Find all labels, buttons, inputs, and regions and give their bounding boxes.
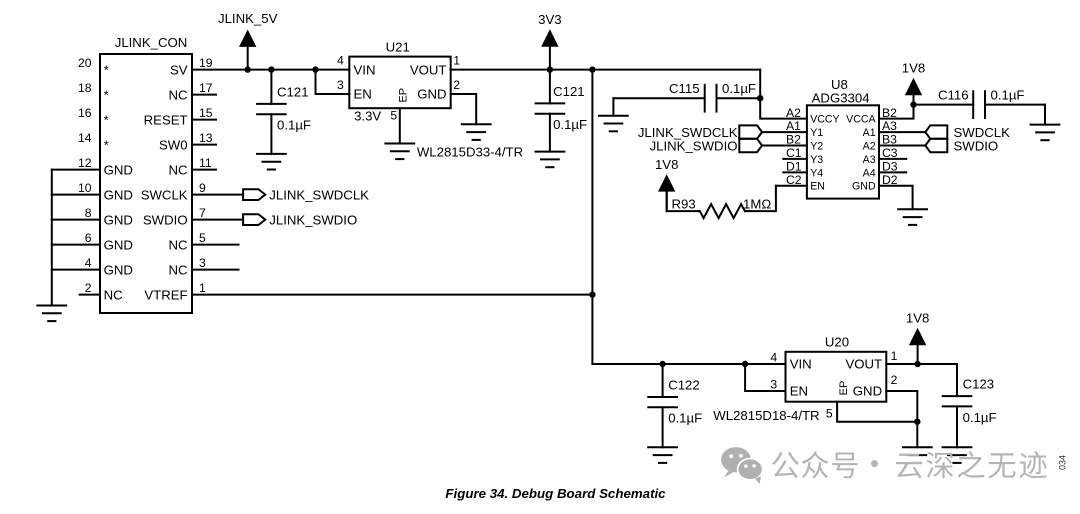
svg-text:RESET: RESET bbox=[144, 112, 188, 127]
wire rail C122 to U20 VIN bbox=[663, 363, 786, 365]
svg-text:A3: A3 bbox=[863, 154, 876, 166]
wire C115 to ground bbox=[612, 98, 614, 116]
svg-text:*: * bbox=[104, 112, 109, 127]
capacitor C121 (0.1uF at JLINK_5V) bbox=[257, 70, 311, 154]
svg-text:0.1µF: 0.1µF bbox=[668, 411, 702, 426]
wire U20 EP pin5 bbox=[837, 402, 917, 422]
power flag 3V3 bbox=[538, 12, 561, 70]
svg-text:7: 7 bbox=[199, 206, 206, 220]
net flag JLINK_SWDIO (pin 7) bbox=[243, 213, 357, 228]
wire pin 11 stub bbox=[192, 169, 216, 171]
ground C121a bbox=[257, 154, 286, 170]
svg-text:GND: GND bbox=[104, 212, 133, 227]
svg-text:1: 1 bbox=[199, 281, 206, 295]
svg-text:GND: GND bbox=[104, 162, 133, 177]
svg-text:C123: C123 bbox=[963, 377, 995, 392]
wire U8 A4 stub bbox=[879, 171, 906, 173]
svg-text:JLINK_SWDIO: JLINK_SWDIO bbox=[269, 213, 357, 228]
svg-text:GND: GND bbox=[104, 187, 133, 202]
wire pin 4 GND stub bbox=[52, 269, 100, 271]
svg-text:Figure 34. Debug Board Schemat: Figure 34. Debug Board Schematic bbox=[445, 486, 666, 501]
junction 3V3 stem bbox=[547, 66, 553, 72]
regulator U20 WL2815D18-4/TR body bbox=[713, 335, 897, 424]
svg-text:1V8: 1V8 bbox=[655, 157, 678, 172]
wire GND bus vertical bbox=[51, 170, 53, 306]
wire U8 A1 to flag bbox=[879, 131, 925, 133]
wire pin 8 GND stub bbox=[52, 219, 100, 221]
svg-text:VTREF: VTREF bbox=[144, 287, 187, 302]
svg-text:8: 8 bbox=[85, 206, 92, 220]
junction U20 VOUT 1V8 bbox=[914, 361, 920, 367]
junction C115 node bbox=[757, 95, 763, 101]
watermark WeChat icon bbox=[721, 447, 763, 484]
connector JLINK_CON pin numbers bbox=[78, 56, 213, 295]
svg-text:3.3V: 3.3V bbox=[354, 109, 381, 124]
ground C122 bbox=[648, 447, 677, 463]
wire U8 Y1 from flag bbox=[762, 131, 807, 133]
wire U8 GND bbox=[879, 186, 913, 210]
wire pin 10 GND stub bbox=[52, 194, 100, 196]
U8 pin net labels bbox=[786, 106, 898, 187]
svg-text:NC: NC bbox=[169, 237, 189, 252]
ground C115 bbox=[599, 116, 628, 132]
svg-text:6: 6 bbox=[85, 231, 92, 245]
svg-text:4: 4 bbox=[337, 54, 344, 68]
svg-text:SV: SV bbox=[170, 62, 188, 77]
wire U20 GND to ground bbox=[916, 422, 918, 448]
wire pin 12 GND stub bbox=[52, 169, 100, 171]
svg-text:WL2815D18-4/TR: WL2815D18-4/TR bbox=[713, 408, 819, 423]
svg-text:VIN: VIN bbox=[354, 62, 376, 77]
svg-text:19: 19 bbox=[199, 56, 213, 70]
net flag JLINK_SWDIO (U8 Y2) bbox=[739, 139, 762, 152]
svg-text:ADG3304: ADG3304 bbox=[812, 90, 870, 105]
connector J1 JLINK_CON body bbox=[100, 35, 192, 313]
svg-text:SW0: SW0 bbox=[159, 137, 188, 152]
net flag SWDCLK bbox=[925, 125, 947, 138]
wire U8 A3 stub bbox=[879, 158, 906, 160]
svg-text:U20: U20 bbox=[825, 335, 849, 350]
svg-text:GND: GND bbox=[852, 181, 876, 193]
junction C122 tap bbox=[659, 361, 665, 367]
wire pin 5 stub bbox=[192, 244, 239, 246]
net flag SWDIO bbox=[925, 139, 947, 152]
junction U20 GND EP bbox=[914, 419, 920, 425]
svg-text:C121: C121 bbox=[553, 84, 585, 99]
svg-text:NC: NC bbox=[104, 287, 124, 302]
net flag JLINK_SWDCLK (U8 Y1) bbox=[739, 125, 762, 138]
svg-text:A4: A4 bbox=[863, 167, 876, 179]
power flag 1V8 at U20 bbox=[906, 311, 929, 364]
wire U20 VOUT to 1V8 rail bbox=[886, 363, 957, 365]
svg-text:3V3: 3V3 bbox=[538, 12, 561, 27]
wire VTREF down to U20 rail bbox=[592, 295, 662, 364]
svg-text:A1: A1 bbox=[863, 127, 876, 139]
wire R93 left lead bbox=[667, 192, 699, 212]
junction 1V8 C116 node bbox=[910, 101, 916, 107]
capacitor C115 0.1uF bbox=[613, 81, 760, 111]
junction VTREF bbox=[589, 291, 595, 297]
ground U21 GND bbox=[462, 124, 491, 140]
wire pin 13 stub bbox=[192, 144, 216, 146]
wire 3V3 rail U21 VOUT to corner bbox=[451, 69, 761, 71]
svg-text:14: 14 bbox=[78, 131, 92, 145]
wire pin 3 stub bbox=[192, 269, 239, 271]
ground C116 bbox=[1031, 125, 1060, 141]
wire R93 right lead bbox=[746, 186, 776, 211]
svg-text:EP: EP bbox=[398, 88, 410, 103]
svg-text:Y2: Y2 bbox=[810, 140, 823, 152]
svg-text:1V8: 1V8 bbox=[902, 61, 925, 76]
capacitor C121 (0.1uF at 3V3) bbox=[536, 70, 588, 152]
svg-text:20: 20 bbox=[78, 56, 92, 70]
wire pin 6 GND stub bbox=[52, 244, 100, 246]
ground connector GND bus bbox=[37, 306, 66, 322]
wire JLINK_5V rail pin19 to U21 VIN bbox=[192, 69, 349, 71]
ground C123 bbox=[943, 447, 972, 463]
ground U8 bbox=[898, 209, 927, 225]
svg-text:3: 3 bbox=[337, 78, 344, 92]
level translator U8 ADG3304 body bbox=[807, 77, 879, 198]
svg-text:2: 2 bbox=[85, 281, 92, 295]
wire pin 2 NC stub bbox=[80, 294, 100, 296]
svg-text:VIN: VIN bbox=[790, 357, 812, 372]
connector JLINK_CON pin name labels bbox=[104, 62, 188, 302]
svg-text:NC: NC bbox=[169, 262, 189, 277]
svg-text:Y1: Y1 bbox=[810, 127, 823, 139]
net flag JLINK_SWDCLK (pin 9) bbox=[243, 188, 369, 203]
svg-text:C121: C121 bbox=[277, 84, 309, 99]
power flag 1V8 at U8 bbox=[902, 61, 925, 105]
power flag JLINK_5V bbox=[218, 11, 278, 70]
svg-text:R93: R93 bbox=[672, 197, 696, 212]
wire U8 Y2 from flag bbox=[762, 145, 807, 147]
svg-text:9: 9 bbox=[199, 181, 206, 195]
ground U20 bbox=[903, 447, 932, 463]
wire U8 VCCA to 1V8 bbox=[879, 105, 914, 119]
ground C121b bbox=[536, 152, 565, 168]
svg-text:VCCY: VCCY bbox=[810, 114, 839, 126]
svg-text:*: * bbox=[104, 87, 109, 102]
svg-text:11: 11 bbox=[199, 156, 212, 170]
svg-text:Y4: Y4 bbox=[810, 167, 823, 179]
svg-text:GND: GND bbox=[104, 237, 133, 252]
wire U8 EN from R93 bbox=[776, 185, 807, 187]
svg-text:JLINK_SWDCLK: JLINK_SWDCLK bbox=[269, 188, 369, 203]
junction C121a tap bbox=[268, 66, 274, 72]
svg-text:1MΩ: 1MΩ bbox=[743, 197, 771, 212]
svg-text:NC: NC bbox=[169, 162, 189, 177]
svg-text:VOUT: VOUT bbox=[410, 62, 447, 77]
svg-text:GND: GND bbox=[104, 262, 133, 277]
wire U20 GND pin2 bbox=[886, 391, 917, 422]
svg-text:1V8: 1V8 bbox=[906, 311, 929, 326]
svg-text:NC: NC bbox=[169, 87, 189, 102]
svg-text:SWCLK: SWCLK bbox=[141, 187, 188, 202]
wire U8 Y4 stub bbox=[783, 171, 807, 173]
svg-text:0.1µF: 0.1µF bbox=[277, 118, 311, 133]
svg-text:U21: U21 bbox=[386, 40, 410, 55]
wire 3V3 vertical to VTREF bbox=[591, 70, 593, 295]
svg-text:15: 15 bbox=[199, 106, 213, 120]
svg-text:SWDIO: SWDIO bbox=[143, 212, 188, 227]
junction JLINK_5V stem bbox=[245, 66, 251, 72]
regulator U21 WL2815D33-4/TR body bbox=[337, 40, 523, 160]
power flag 1V8 at R93 bbox=[655, 157, 678, 211]
junction 3V3 vertical rail bbox=[589, 66, 595, 72]
svg-text:0.1µF: 0.1µF bbox=[963, 410, 997, 425]
svg-text:3: 3 bbox=[770, 378, 777, 392]
wire pin 17 stub bbox=[192, 94, 216, 96]
svg-text:JLINK_5V: JLINK_5V bbox=[218, 11, 278, 26]
wire U20 EN branch bbox=[745, 364, 785, 391]
svg-text:C115: C115 bbox=[669, 81, 700, 96]
svg-text:EN: EN bbox=[810, 181, 825, 193]
svg-text:JLINK_CON: JLINK_CON bbox=[115, 35, 188, 50]
watermark text 公众号·云深之无迹 bbox=[772, 451, 1047, 478]
svg-text:0.1µF: 0.1µF bbox=[722, 81, 756, 96]
wire pin 15 stub bbox=[192, 119, 216, 121]
svg-text:12: 12 bbox=[78, 156, 92, 170]
svg-text:16: 16 bbox=[78, 106, 92, 120]
capacitor C123 0.1uF bbox=[943, 364, 997, 447]
svg-text:13: 13 bbox=[199, 131, 213, 145]
svg-text:*: * bbox=[104, 137, 109, 152]
wire VTREF pin1 bbox=[192, 294, 592, 296]
wire C116 to ground bbox=[1044, 105, 1046, 125]
svg-text:17: 17 bbox=[199, 81, 213, 95]
resistor R93 1Mohm bbox=[672, 197, 772, 219]
ground U21 EP bbox=[385, 144, 414, 160]
svg-text:1: 1 bbox=[453, 54, 460, 68]
svg-text:Y3: Y3 bbox=[810, 154, 823, 166]
svg-text:GND: GND bbox=[417, 87, 446, 102]
wire U21 GND pin2 bbox=[451, 94, 477, 124]
wire pin 9 SWCLK to flag bbox=[192, 194, 243, 196]
wire U21 EN branch bbox=[316, 70, 350, 94]
wire U8 Y3 stub bbox=[783, 158, 807, 160]
svg-text:EN: EN bbox=[790, 384, 808, 399]
svg-text:A2: A2 bbox=[786, 106, 801, 120]
svg-text:WL2815D33-4/TR: WL2815D33-4/TR bbox=[417, 145, 523, 160]
svg-text:5: 5 bbox=[826, 406, 833, 420]
svg-text:*: * bbox=[104, 62, 109, 77]
junction U20 EN tap bbox=[742, 361, 748, 367]
svg-text:C116: C116 bbox=[938, 88, 969, 103]
svg-text:3: 3 bbox=[199, 256, 206, 270]
capacitor C116 0.1uF bbox=[914, 88, 1046, 118]
svg-text:A2: A2 bbox=[863, 140, 876, 152]
wire pin 7 SWDIO to flag bbox=[192, 219, 243, 221]
svg-text:A1: A1 bbox=[786, 119, 801, 133]
svg-text:5: 5 bbox=[390, 108, 397, 122]
svg-text:EP: EP bbox=[838, 381, 850, 396]
svg-text:A3: A3 bbox=[882, 119, 897, 133]
svg-text:EN: EN bbox=[354, 87, 372, 102]
svg-text:2: 2 bbox=[891, 373, 898, 387]
svg-text:18: 18 bbox=[78, 81, 92, 95]
svg-text:5: 5 bbox=[199, 231, 206, 245]
svg-text:VOUT: VOUT bbox=[845, 357, 882, 372]
svg-text:10: 10 bbox=[78, 181, 92, 195]
svg-text:2: 2 bbox=[453, 78, 460, 92]
svg-text:4: 4 bbox=[770, 351, 777, 365]
svg-text:VCCA: VCCA bbox=[846, 114, 876, 126]
svg-text:0.1µF: 0.1µF bbox=[991, 88, 1025, 103]
svg-text:0.1µF: 0.1µF bbox=[553, 117, 587, 132]
svg-text:034: 034 bbox=[1058, 455, 1068, 470]
svg-text:C122: C122 bbox=[668, 378, 700, 393]
svg-text:JLINK_SWDIO: JLINK_SWDIO bbox=[650, 138, 738, 153]
svg-text:1: 1 bbox=[891, 349, 898, 363]
wire 3V3 to C115 node bbox=[759, 70, 761, 99]
junction U21 EN tap bbox=[312, 66, 318, 72]
svg-text:GND: GND bbox=[853, 384, 882, 399]
svg-text:SWDIO: SWDIO bbox=[954, 138, 999, 153]
wire C115 node to U8 VCCY bbox=[760, 98, 807, 118]
svg-text:4: 4 bbox=[85, 256, 92, 270]
wire U8 A2 to flag bbox=[879, 145, 925, 147]
capacitor C122 0.1uF bbox=[648, 364, 702, 447]
wire U21 EP pin5 bbox=[399, 108, 401, 143]
